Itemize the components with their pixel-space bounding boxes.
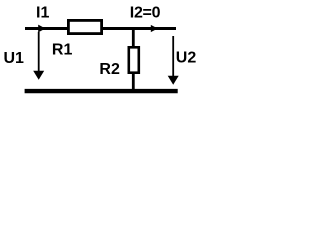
svg-text:I2=0: I2=0 — [130, 5, 161, 22]
current arrow I2 head — [151, 25, 158, 32]
svg-text:U1: U1 — [4, 50, 25, 67]
current arrow I1 head — [38, 25, 45, 33]
svg-text:U2: U2 — [176, 49, 197, 66]
resistor R1 — [68, 20, 101, 33]
ground bus bottom — [25, 89, 178, 93]
wire vertical to R2 — [132, 27, 135, 91]
resistor R2 — [129, 47, 139, 72]
voltage arrow U2 head — [168, 76, 179, 85]
wire top horizontal — [25, 27, 176, 30]
svg-text:R2: R2 — [99, 61, 120, 78]
voltage arrow U2 shaft — [172, 36, 174, 77]
svg-text:I1: I1 — [36, 5, 49, 22]
voltage arrow U1 head — [33, 71, 44, 80]
svg-text:R1: R1 — [52, 41, 73, 58]
voltage arrow U1 shaft — [38, 32, 40, 73]
